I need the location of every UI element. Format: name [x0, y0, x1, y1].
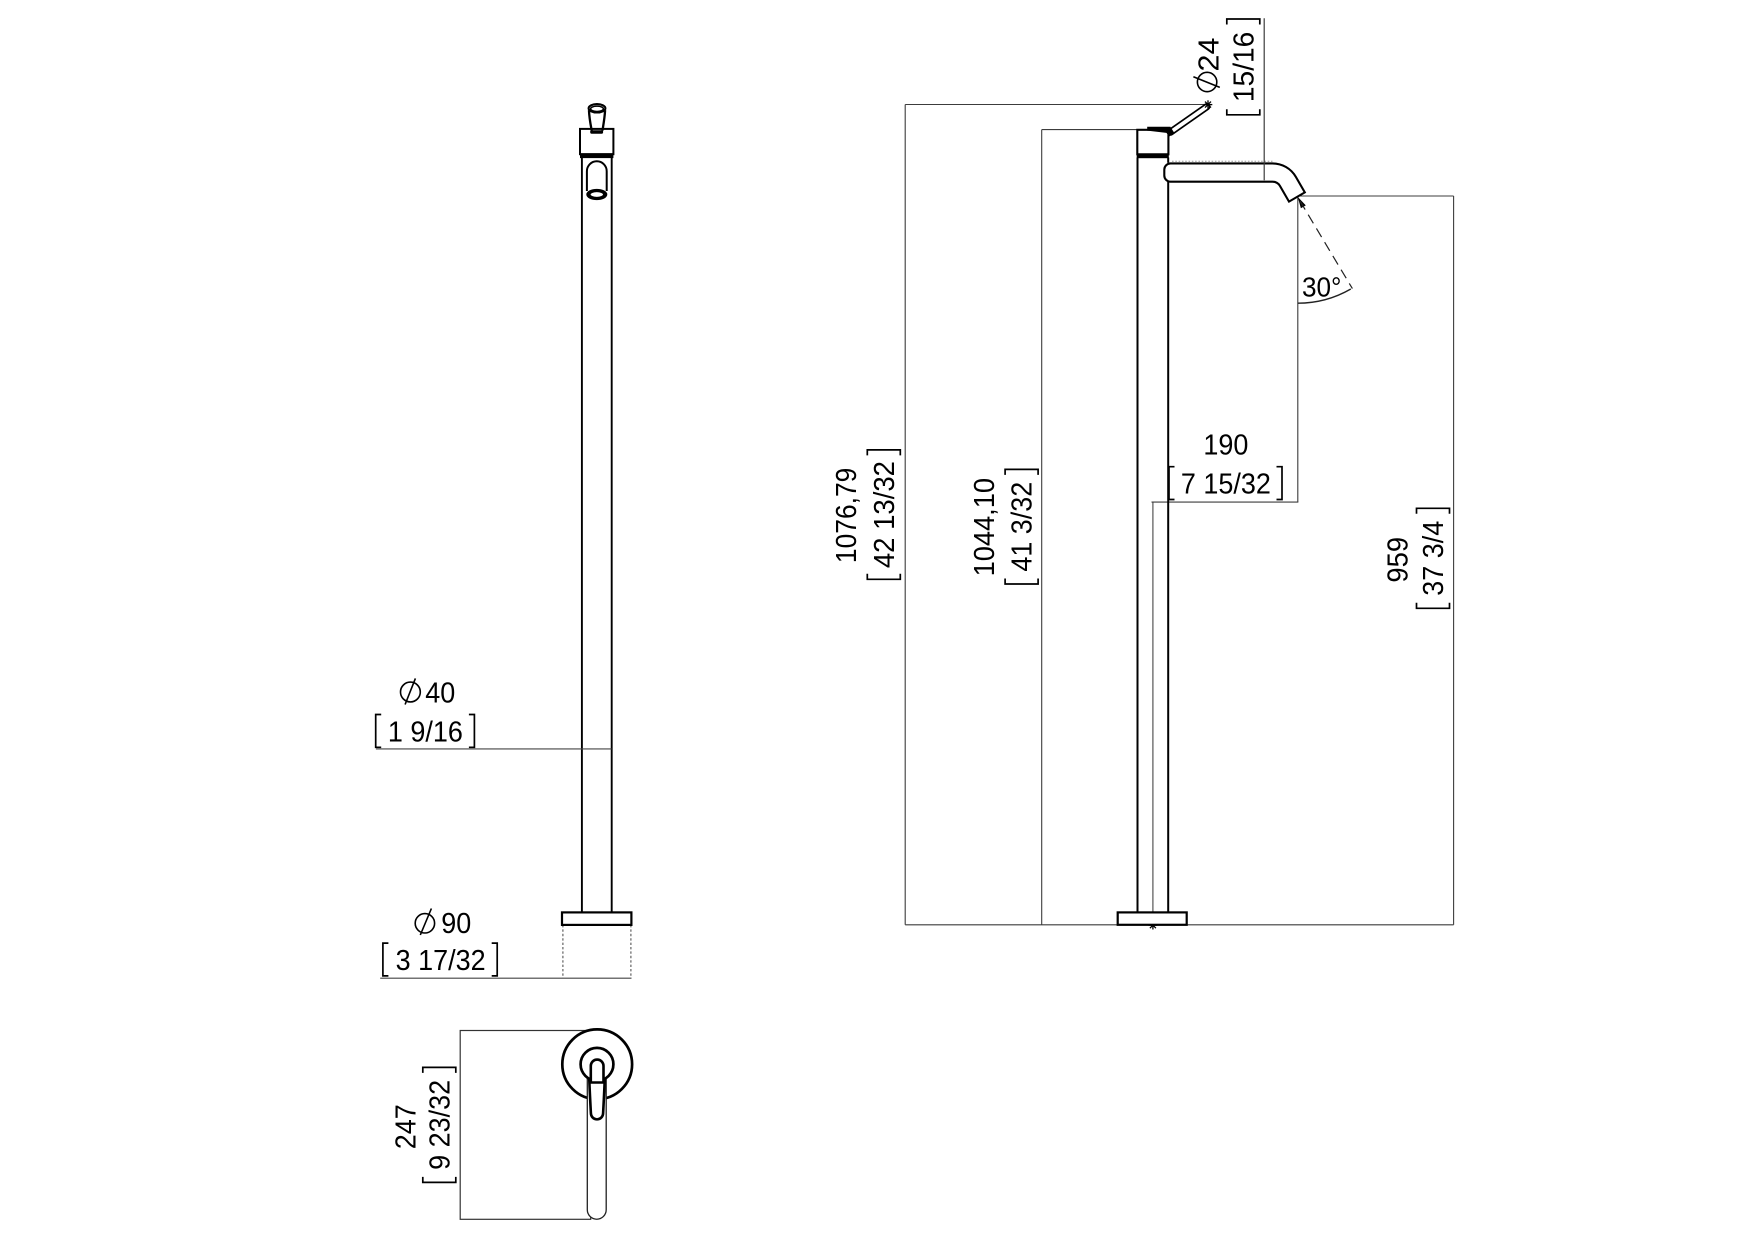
side lever base bar	[1147, 127, 1174, 137]
svg-text:247: 247	[390, 1104, 422, 1149]
dim 1076 box lines	[905, 105, 1205, 925]
front base flange	[562, 912, 631, 925]
front cap	[580, 129, 613, 154]
dia24 label	[1193, 38, 1225, 92]
dia90 bracket label	[383, 943, 497, 976]
dim 1044 lines	[1042, 130, 1137, 925]
top view lever silhouette	[587, 1062, 606, 1219]
svg-text:959: 959	[1381, 537, 1414, 583]
dim 959 box lines	[1298, 196, 1454, 925]
side base plate	[1118, 912, 1187, 924]
dia90 leader line	[380, 977, 631, 979]
spray 30deg dashed line	[1300, 201, 1352, 289]
svg-text:24: 24	[1193, 38, 1225, 72]
dim 190 text	[1203, 429, 1248, 461]
dia40 bracket label	[376, 715, 475, 748]
front base hidden box	[563, 925, 631, 978]
front knob	[589, 104, 606, 134]
dia24 bracket text	[1227, 19, 1261, 115]
side spout	[1164, 163, 1305, 201]
svg-text:15/16: 15/16	[1228, 32, 1260, 102]
dia40 leader line	[376, 748, 612, 750]
dim 190 line	[1152, 501, 1299, 503]
spout hidden top line	[1172, 160, 1273, 162]
top view knob stadium	[591, 1060, 604, 1083]
svg-text:1 9/16: 1 9/16	[388, 715, 463, 747]
top view cap circle	[581, 1048, 614, 1081]
svg-text:9 23/32: 9 23/32	[423, 1080, 455, 1170]
dim 247 bracket text	[423, 1067, 456, 1182]
front spout body	[587, 161, 607, 191]
top view plate rectangle	[460, 1031, 591, 1220]
side cap	[1137, 130, 1168, 155]
svg-text:1044,10: 1044,10	[968, 478, 1000, 576]
front column body	[582, 158, 612, 913]
dim 1044 bracket text	[1005, 469, 1038, 584]
side column body	[1138, 158, 1169, 913]
dim 1076 bracket text	[867, 450, 900, 579]
svg-text:190: 190	[1203, 429, 1248, 461]
svg-text:41 3/32: 41 3/32	[1006, 482, 1038, 572]
side cap dark band	[1137, 154, 1169, 158]
svg-text:7 15/32: 7 15/32	[1181, 468, 1271, 500]
spray arrow at spout tip	[1298, 197, 1306, 208]
front spout outlet ring	[587, 190, 607, 200]
dia24 extension line	[1263, 18, 1265, 180]
dim 1076,79 text	[830, 468, 862, 563]
svg-text:3 17/32: 3 17/32	[396, 944, 486, 976]
star marker at lever tip	[1204, 100, 1213, 109]
svg-text:1076,79: 1076,79	[830, 468, 862, 563]
ground baseline	[905, 924, 1453, 926]
dia90 label	[415, 907, 471, 939]
svg-text:42 13/32: 42 13/32	[867, 461, 900, 568]
svg-text:40: 40	[425, 677, 455, 709]
dim 247 text	[390, 1104, 422, 1149]
front cap dark band	[580, 153, 613, 158]
dim 190 bracket text	[1169, 467, 1282, 500]
label 30deg	[1302, 272, 1341, 303]
dia40 label	[401, 677, 456, 709]
dim 959 text	[1381, 537, 1414, 583]
svg-text:90: 90	[441, 907, 471, 939]
dim 1044,10 text	[968, 478, 1000, 576]
spray 30deg arc	[1298, 289, 1351, 303]
svg-text:37 3/4: 37 3/4	[1417, 521, 1449, 596]
star marker at base	[1149, 921, 1158, 930]
side lever bar	[1168, 104, 1210, 135]
svg-text:30°: 30°	[1302, 272, 1341, 303]
top view base circle	[562, 1029, 632, 1099]
top view lever grip	[589, 1080, 604, 1119]
dim 959 bracket text	[1417, 508, 1450, 608]
column centerline	[1152, 502, 1154, 924]
